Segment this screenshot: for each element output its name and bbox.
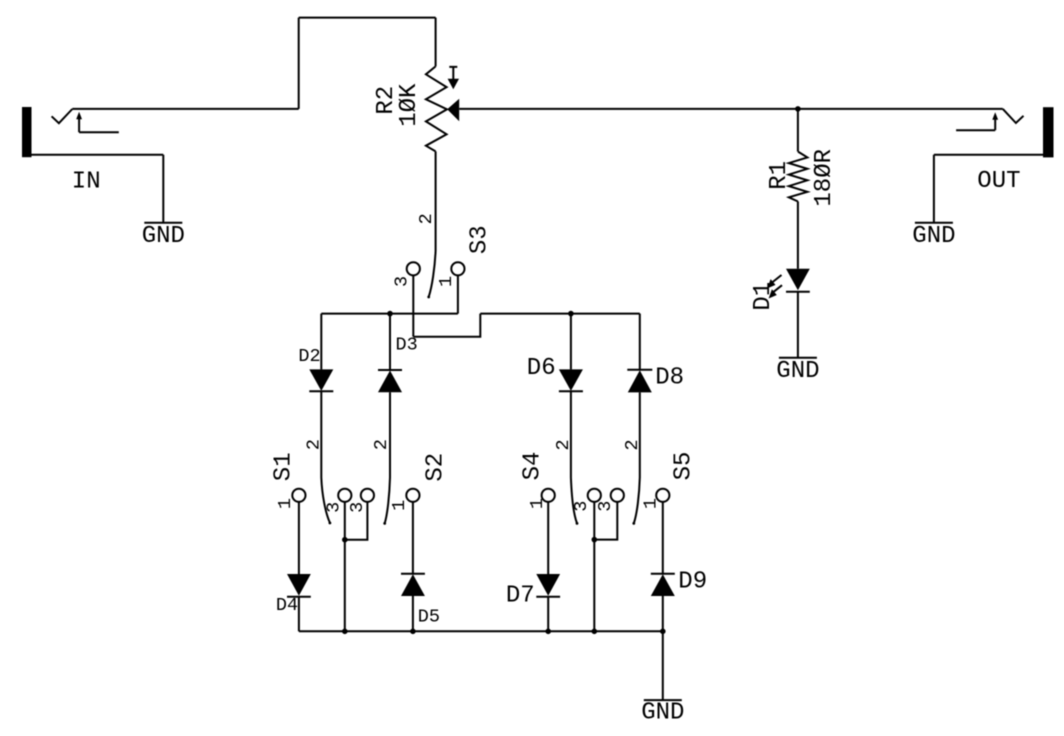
wire D9 to bottom bus bbox=[662, 596, 664, 631]
svg-text:D8: D8 bbox=[655, 365, 684, 392]
junction node bracket left bbox=[342, 537, 348, 543]
ground GND1 (input jack) bbox=[144, 222, 182, 224]
resistor R1 body bbox=[789, 152, 808, 202]
svg-text:3: 3 bbox=[595, 501, 616, 512]
diode D5 cathode bar bbox=[401, 573, 425, 575]
wire D8 to S5 pin 2 bbox=[639, 392, 641, 477]
svg-text:S2: S2 bbox=[423, 453, 450, 482]
wire S1 pin 1 to D4 bbox=[298, 502, 300, 574]
connector J2 OUT tip contact bbox=[1003, 109, 1024, 123]
wire S4 pin 3 down to bus bbox=[593, 502, 595, 631]
LED D1 triangle bbox=[786, 269, 810, 291]
wire D3 to S2 pin 2 bbox=[389, 392, 391, 477]
ground GND3 (LED) bbox=[779, 357, 817, 359]
ground GND4 (bottom) bbox=[644, 699, 682, 701]
svg-text:D3: D3 bbox=[396, 335, 418, 356]
connector J1 IN tip contact bbox=[52, 109, 73, 123]
svg-text:GND: GND bbox=[142, 223, 185, 250]
LED D1 light arrow 2 bbox=[772, 285, 782, 293]
wire OUT sleeve horizontal bbox=[934, 154, 1043, 156]
potentiometer R2 body bbox=[426, 66, 447, 151]
wire left bus to D2 bbox=[320, 314, 322, 370]
wire OUT sleeve to ground bbox=[933, 155, 935, 223]
switch S1 pin 3 circle bbox=[338, 489, 351, 502]
diode D4 triangle bbox=[287, 574, 311, 596]
wire main input net: tip to corner bbox=[72, 108, 298, 110]
switch S4 pin 1 circle bbox=[542, 489, 555, 502]
wire IN sleeve horizontal bbox=[32, 154, 164, 156]
LED D1 light arrow 1 bbox=[772, 275, 782, 283]
switch S2 lever bbox=[385, 478, 390, 524]
svg-text:S3: S3 bbox=[467, 225, 494, 254]
diode D7 triangle bbox=[536, 574, 560, 596]
switch S1 pin 1 circle bbox=[292, 489, 305, 502]
svg-text:GND: GND bbox=[912, 223, 955, 250]
wire R1 to D1 bbox=[797, 202, 799, 269]
svg-text:2: 2 bbox=[371, 439, 392, 450]
svg-text:R1: R1 bbox=[766, 161, 793, 190]
switch S3 pin 3 circle bbox=[407, 262, 420, 275]
svg-text:OUT: OUT bbox=[977, 168, 1020, 195]
wire left bus bbox=[321, 313, 458, 315]
wire S5 pin 3 bracket bbox=[594, 502, 617, 540]
wire S2 pin 3 bracket bbox=[345, 502, 368, 540]
svg-text:S5: S5 bbox=[670, 452, 697, 481]
svg-text:3: 3 bbox=[347, 502, 368, 513]
switch S1 lever bbox=[321, 478, 330, 523]
svg-text:18ØR: 18ØR bbox=[811, 149, 838, 207]
svg-text:GND: GND bbox=[641, 700, 684, 727]
svg-text:D1: D1 bbox=[750, 282, 777, 311]
wire bottom bus bbox=[299, 630, 663, 632]
svg-text:D9: D9 bbox=[678, 568, 707, 595]
svg-text:2: 2 bbox=[303, 439, 324, 450]
svg-text:D2: D2 bbox=[298, 346, 320, 367]
svg-text:D5: D5 bbox=[418, 606, 440, 627]
svg-text:D4: D4 bbox=[276, 595, 298, 616]
svg-text:2: 2 bbox=[553, 439, 574, 450]
svg-text:S4: S4 bbox=[520, 452, 547, 481]
svg-text:1: 1 bbox=[436, 276, 457, 287]
svg-text:2: 2 bbox=[622, 439, 643, 450]
switch S2 pin 1 circle bbox=[406, 489, 419, 502]
svg-text:1: 1 bbox=[275, 498, 296, 509]
connector J2 OUT jack body bbox=[1043, 107, 1054, 157]
wire S2 pin 1 to D5 bbox=[412, 502, 414, 574]
connector J1 IN jack body bbox=[22, 107, 32, 157]
wire down to R2 pin 1 bbox=[435, 18, 437, 67]
wire R2 pin 3 down to S3 pin 2 bbox=[435, 151, 437, 251]
svg-text:1: 1 bbox=[640, 498, 661, 509]
ground GND2 (output jack) bbox=[915, 222, 953, 224]
wire D4 to bottom bus bbox=[298, 597, 300, 632]
diode D2 triangle bbox=[309, 369, 333, 391]
switch S5 lever bbox=[634, 478, 640, 524]
junction node D9/bus bbox=[660, 629, 666, 635]
switch S4 lever bbox=[571, 478, 577, 524]
diode D8 triangle bbox=[628, 370, 652, 392]
switch S5 pin 1 circle bbox=[656, 489, 669, 502]
switch S3 lever bbox=[429, 251, 436, 297]
potentiometer R2 wiper arrow bbox=[447, 99, 459, 121]
wire S3 pin 3 down bbox=[412, 275, 414, 336]
diode D4 cathode bar bbox=[287, 596, 311, 598]
svg-text:S1: S1 bbox=[271, 452, 298, 481]
switch S4 pin 3 circle bbox=[588, 489, 601, 502]
diode D7 cathode bar bbox=[536, 596, 560, 598]
junction node wiper/R1 bbox=[795, 106, 801, 112]
wire right bus to D8 bbox=[639, 314, 641, 370]
wire S5 pin 1 to D9 bbox=[662, 502, 664, 574]
svg-text:3: 3 bbox=[571, 501, 592, 512]
wire jog to right bus bbox=[413, 314, 480, 337]
svg-text:D7: D7 bbox=[506, 582, 535, 609]
wire top span bbox=[299, 17, 436, 19]
junction node S4 pin3/bus bbox=[592, 629, 598, 635]
diode D6 cathode bar bbox=[559, 390, 583, 392]
svg-text:1: 1 bbox=[389, 500, 410, 511]
diode D9 cathode bar bbox=[651, 573, 675, 575]
svg-text:3: 3 bbox=[392, 276, 413, 287]
switch S3 pin 1 circle bbox=[451, 262, 464, 275]
svg-text:1: 1 bbox=[527, 498, 548, 509]
LED D1 cathode bar bbox=[786, 291, 810, 293]
wire junction to D6 bbox=[570, 314, 572, 370]
svg-text:1ØK: 1ØK bbox=[396, 83, 423, 127]
potentiometer R2 adjust arrow bbox=[449, 67, 457, 79]
diode D2 cathode bar bbox=[309, 390, 333, 392]
svg-text:IN: IN bbox=[72, 169, 101, 196]
wire S1 pin 3 down to bus bbox=[344, 502, 346, 631]
wire D1 to ground bbox=[797, 292, 799, 358]
diode D5 triangle bbox=[401, 574, 425, 596]
connector J2 OUT tip arrow bbox=[994, 119, 996, 130]
junction node D5/bus bbox=[410, 629, 416, 635]
wire S4 pin 1 to D7 bbox=[547, 502, 549, 574]
diode D6 triangle bbox=[559, 369, 583, 391]
svg-text:3: 3 bbox=[323, 502, 344, 513]
wire D6 to S4 pin 2 bbox=[570, 391, 572, 477]
wire junction to D3 bbox=[389, 314, 391, 370]
wire D7 to bottom bus bbox=[547, 597, 549, 632]
switch S2 pin 3 circle bbox=[361, 489, 374, 502]
svg-text:2: 2 bbox=[416, 213, 437, 224]
switch S5 pin 3 circle bbox=[611, 489, 624, 502]
wire bus to ground bbox=[662, 631, 664, 700]
wire IN sleeve to ground bbox=[162, 155, 164, 223]
junction node D6/right bus bbox=[568, 311, 574, 317]
diode D3 cathode bar bbox=[378, 369, 402, 371]
wire wiper net to OUT tip bbox=[459, 108, 1003, 110]
resistor R1 lead top bbox=[797, 109, 799, 152]
junction node bracket right bbox=[592, 537, 598, 543]
junction node D3/left bus bbox=[387, 311, 393, 317]
diode D3 triangle bbox=[378, 371, 402, 393]
diode D9 triangle bbox=[651, 574, 675, 596]
junction node D7/bus bbox=[545, 629, 551, 635]
wire right bus bbox=[480, 313, 640, 315]
wire D5 to bottom bus bbox=[412, 596, 414, 631]
wire D2 to S1 pin 2 bbox=[320, 391, 322, 477]
connector J1 IN tip arrow bbox=[78, 119, 80, 133]
diode D8 cathode bar bbox=[627, 369, 652, 371]
svg-text:D6: D6 bbox=[527, 355, 556, 382]
svg-text:GND: GND bbox=[776, 358, 819, 385]
junction node S1 pin3/bus bbox=[342, 629, 348, 635]
wire S3 pin 1 down bbox=[457, 275, 459, 313]
wire riser left bbox=[298, 18, 300, 109]
